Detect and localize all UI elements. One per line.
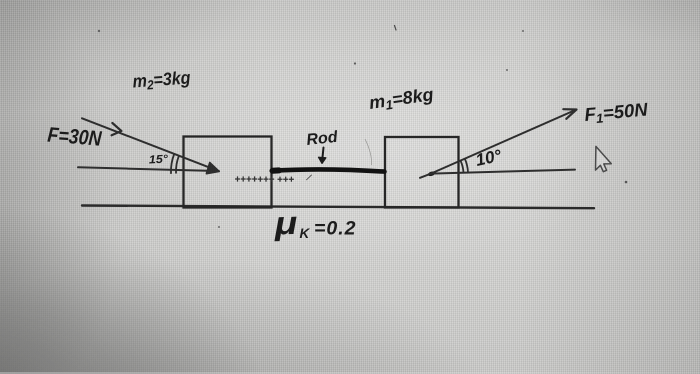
force arrow F=30N mid arrowhead [112, 123, 122, 135]
plus tick marks between block m2 and rod [235, 176, 294, 181]
rod label down arrowhead [319, 157, 326, 163]
block m1 (right block) [385, 137, 459, 208]
angle arc 15 degrees (double arc) [171, 154, 179, 173]
block m2 (left block) [184, 137, 272, 208]
force arrow F=30N end arrowhead [207, 163, 220, 174]
mouse cursor [596, 146, 612, 171]
rod left end bulge [273, 167, 280, 173]
photo specks [98, 26, 628, 229]
ground line [82, 206, 594, 209]
svg-text:15°: 15° [149, 153, 169, 166]
angle arc 10 degrees (double arc) [461, 159, 468, 173]
faint hair mark on screen [365, 139, 372, 165]
rod label down arrow [322, 148, 323, 161]
force arrow F1=50N end arrowhead [563, 109, 576, 119]
thin scratch mark below rod [307, 175, 312, 180]
svg-text:Rod: Rod [306, 129, 340, 149]
left reference horizontal line [78, 167, 217, 171]
rod connecting the blocks [272, 169, 385, 171]
svg-text:μ: μ [273, 205, 298, 242]
svg-text:=0.2: =0.2 [314, 218, 357, 240]
vertex blob where F1 and reference line meet [427, 171, 436, 177]
force arrow F1=50N line [430, 110, 577, 175]
right reference horizontal line [420, 170, 575, 178]
svg-text:F=30N: F=30N [47, 124, 103, 151]
svg-text:K: K [300, 226, 311, 241]
force arrow F=30N line [82, 118, 219, 171]
